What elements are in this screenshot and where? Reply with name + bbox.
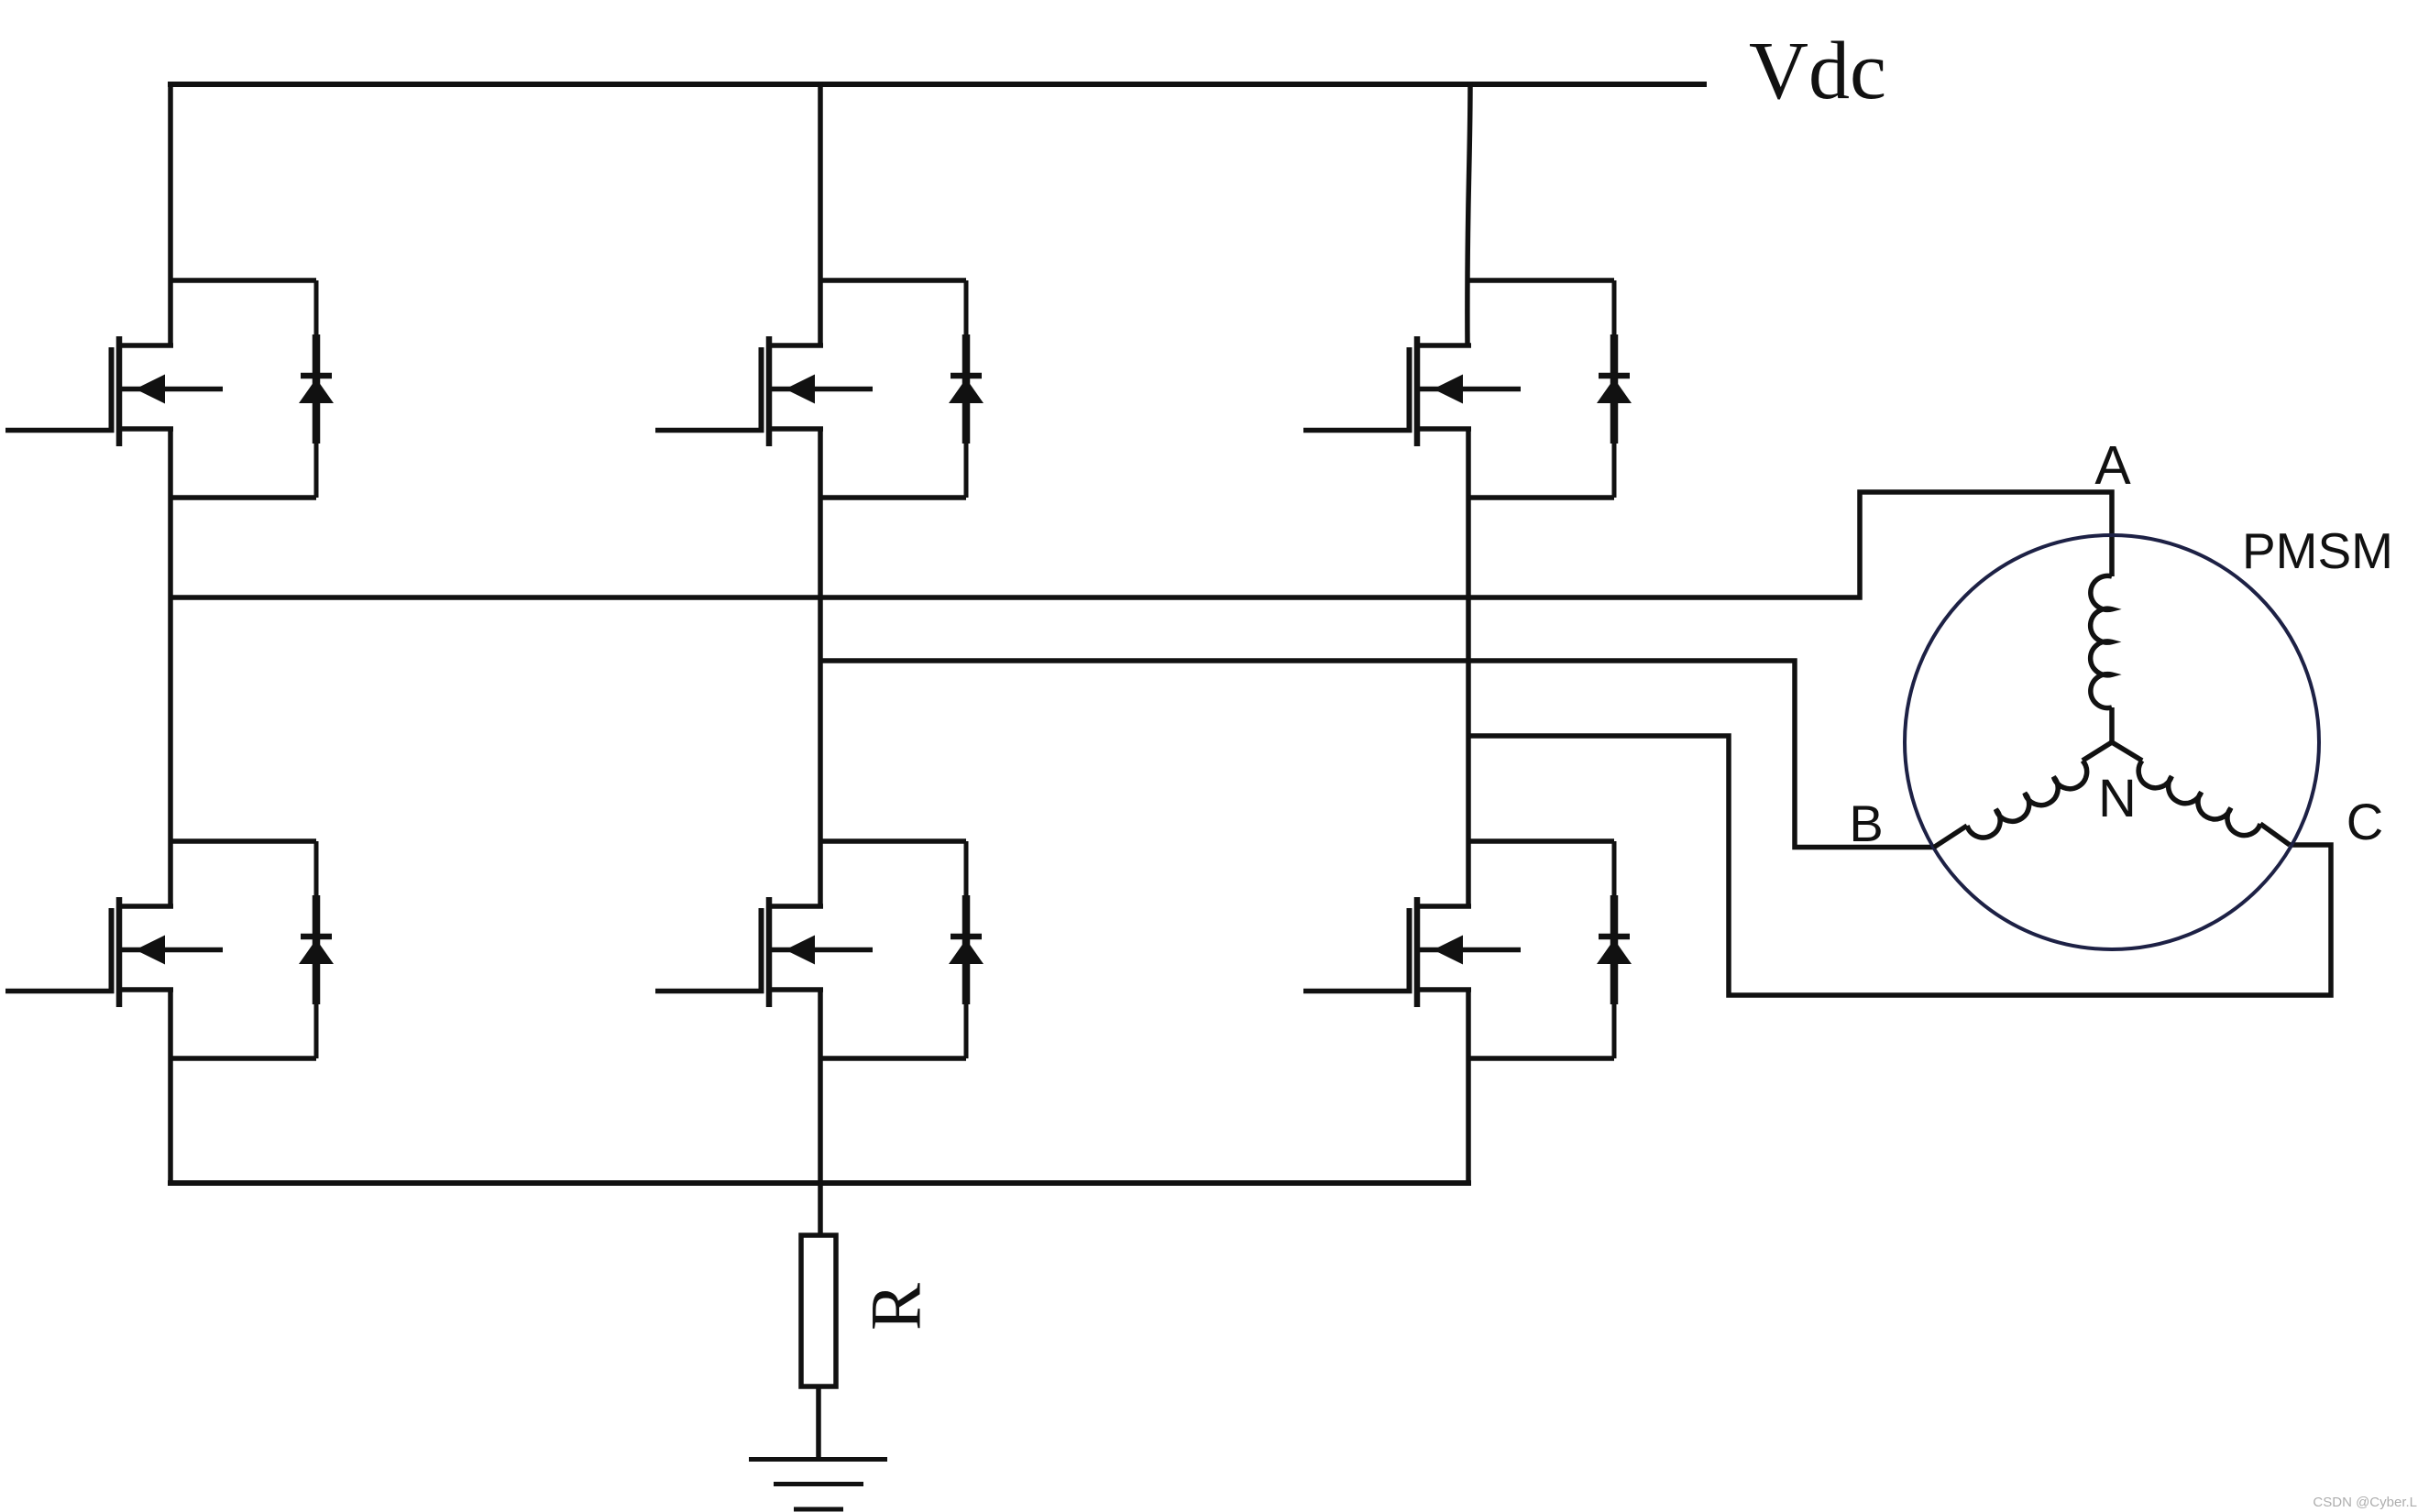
ground	[749, 1460, 887, 1510]
wire Q3 source-diode bottom	[1468, 495, 1614, 500]
wire phase B (leg B midpoint to motor terminal B)	[820, 661, 1934, 848]
label PMSM	[2242, 522, 2393, 579]
transistor Q3	[1410, 336, 1522, 446]
PMSM winding C	[2112, 742, 2290, 845]
body diode D3	[1597, 280, 1632, 498]
wire phase A (leg A midpoint to motor terminal A)	[170, 492, 2112, 597]
wire leg B lower (Q5 source to bus)	[818, 988, 823, 1183]
label Vdc	[1749, 26, 1886, 116]
wire bus to resistor	[818, 1183, 823, 1237]
svg-text:B: B	[1849, 794, 1883, 852]
Q2 gate lead wire	[655, 428, 764, 433]
wire leg B upper (rail to Q2 drain)	[818, 82, 823, 347]
wire leg A lower (Q4 source to bus)	[168, 988, 173, 1183]
svg-text:PMSM: PMSM	[2242, 522, 2393, 579]
resistor R	[801, 1235, 836, 1386]
label B (phase terminal)	[1849, 794, 1883, 852]
transistor Q1	[112, 336, 224, 446]
Q4 gate lead wire	[5, 989, 115, 994]
transistor Q5	[762, 897, 874, 1007]
wire Q2 source-diode bottom	[820, 495, 966, 500]
svg-text:CSDN @Cyber.L: CSDN @Cyber.L	[2313, 1495, 2417, 1510]
wire leg C lower (Q6 source to bus)	[1466, 988, 1471, 1183]
wire Q3 drain-diode top	[1468, 278, 1614, 283]
wire Q6 drain-diode top	[1468, 838, 1614, 844]
wire Q4 drain-diode top	[170, 838, 316, 844]
Vdc supply rail	[168, 82, 1707, 87]
Q3 gate lead wire	[1303, 428, 1412, 433]
wire Q6 source-diode bottom	[1468, 1056, 1614, 1061]
label C (phase terminal)	[2347, 793, 2383, 850]
wire Q5 drain-diode top	[820, 838, 966, 844]
transistor Q6	[1410, 897, 1522, 1007]
body diode D6	[1597, 841, 1632, 1058]
wire phase C (leg C midpoint to motor terminal C)	[1468, 736, 2331, 995]
wire Q2 drain-diode top	[820, 278, 966, 283]
body diode D4	[299, 841, 334, 1058]
svg-text:R: R	[856, 1283, 936, 1331]
label A (phase terminal)	[2094, 435, 2131, 496]
transistor Q2	[762, 336, 874, 446]
transistor Q4	[112, 897, 224, 1007]
Q6 gate lead wire	[1303, 989, 1412, 994]
wire Q1 source-diode bottom	[170, 495, 316, 500]
body diode D5	[949, 841, 984, 1058]
wire leg B middle (Q2 source to Q5 drain)	[818, 427, 823, 908]
wire resistor to ground	[816, 1386, 821, 1461]
wire Q1 drain-diode top	[170, 278, 316, 283]
Q5 gate lead wire	[655, 989, 764, 994]
svg-text:A: A	[2094, 435, 2131, 496]
svg-text:C: C	[2347, 793, 2383, 850]
wire Q4 source-diode bottom	[170, 1056, 316, 1061]
body diode D2	[949, 280, 984, 498]
svg-text:Vdc: Vdc	[1749, 26, 1886, 116]
wire leg A middle (Q1 source to Q4 drain)	[168, 427, 173, 908]
wire source bus	[168, 1180, 1471, 1186]
wire Q5 source-diode bottom	[820, 1056, 966, 1061]
label R	[856, 1283, 936, 1331]
svg-text:N: N	[2098, 769, 2137, 828]
PMSM stator circle	[1905, 535, 2319, 949]
watermark	[2313, 1495, 2417, 1510]
PMSM winding A	[2091, 575, 2112, 742]
wire leg A upper (rail to Q1 drain)	[168, 82, 173, 347]
body diode D1	[299, 280, 334, 498]
wire leg C upper (rail to Q3 drain)	[1467, 82, 1470, 347]
wire leg C middle (Q3 source to Q6 drain)	[1466, 427, 1471, 908]
PMSM winding B	[1934, 742, 2112, 848]
Q1 gate lead wire	[5, 428, 115, 433]
label N (neutral node)	[2098, 769, 2137, 828]
